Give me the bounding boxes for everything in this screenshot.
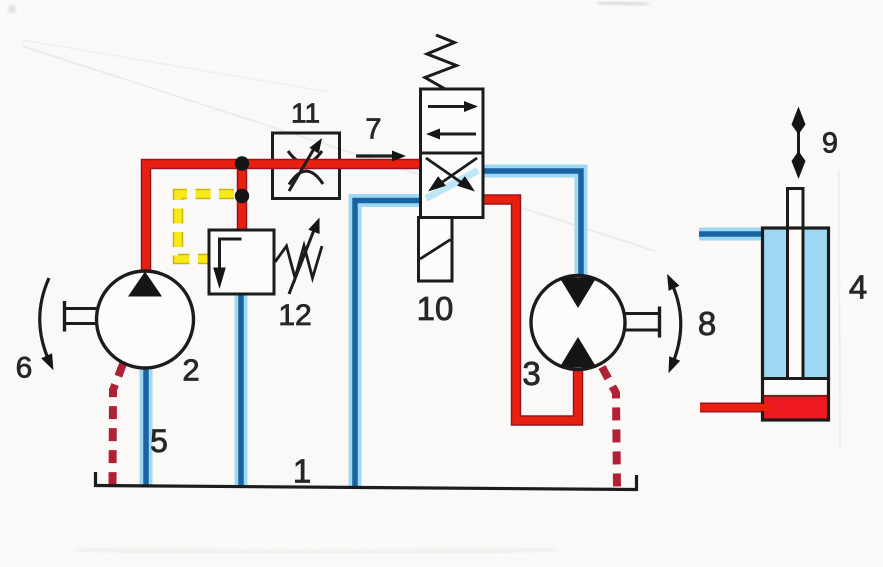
svg-text:11: 11 (291, 98, 320, 129)
svg-text:12: 12 (278, 299, 311, 332)
wire yellow dashed pilot line to relief valve (178, 194, 234, 259)
tank line left end tick (94, 472, 97, 487)
wire red pressure line pump-to-valve11-to-valve10 (146, 164, 421, 274)
directional valve 10 faint blue flow through lower box (426, 171, 478, 199)
directional valve 10 lower position box (421, 153, 484, 218)
wire blue return line valve10-to-tank (355, 201, 424, 489)
node junction dot on red line (to valve 11) (235, 156, 249, 170)
stroke direction arrow 9 lower head (792, 151, 806, 179)
relief valve 12 internal arrowhead (down) (213, 268, 226, 290)
svg-text:2: 2 (182, 353, 199, 388)
directional valve 10 lever actuator box (419, 218, 453, 282)
svg-text:5: 5 (150, 423, 168, 459)
directional valve 10 upper box arrow left (438, 133, 476, 136)
scan artifact right crease (839, 170, 840, 450)
wire blue drain line relief-valve-to-tank (235, 293, 248, 487)
wire blue line to cylinder head side (699, 228, 766, 241)
cylinder 4 red chamber fill (764, 396, 827, 419)
cylinder 4 piston top line (764, 377, 827, 380)
flow control valve 11 adjustment arrow (289, 147, 315, 191)
pump 2 shaft (65, 309, 98, 324)
scan artifact faint short diagonal (22, 40, 330, 92)
scan artifact top-left dot (8, 5, 16, 13)
rotation arrow 8 lower head (669, 356, 681, 373)
tank line right end tick (635, 475, 638, 491)
wire red dashed drain line motor-to-tank (602, 367, 617, 489)
scan artifact faint diagonal line (22, 46, 655, 251)
flow control valve 11 body (box drawn under the red line) (273, 133, 340, 199)
directional valve 10 spring (425, 35, 457, 90)
relief valve 12 adjustment arrow (289, 230, 314, 294)
pump 2 circle (97, 271, 194, 368)
svg-text:10: 10 (417, 290, 454, 327)
flow direction arrow 7 (356, 154, 393, 157)
cylinder 4 white piston band (764, 379, 827, 397)
motor 3 shaft end cap (658, 307, 661, 338)
directional valve 10 cross arrow B (441, 158, 477, 183)
rotation arrow 6 head (41, 353, 53, 370)
rotation arrow 8 arc (671, 282, 681, 365)
wire red dashed drain line pump-to-tank (113, 364, 124, 486)
scan artifact top smudge (598, 2, 648, 5)
cylinder 4 red chamber top line (764, 395, 827, 397)
rotation arrow 8 upper head (667, 274, 679, 291)
motor 3 shaft (625, 314, 660, 331)
wire red branch to relief valve 12 (237, 160, 248, 232)
relief valve 12 spring (275, 246, 322, 279)
flow control valve 11 lower throttle arc (289, 171, 323, 184)
cylinder 4 piston rod (788, 189, 804, 379)
wire blue line valve10-to-motor (480, 171, 581, 280)
pressure relief valve 12 body (209, 230, 274, 294)
svg-text:7: 7 (365, 114, 381, 146)
pump 2 flow triangle (outlet up) (128, 272, 162, 297)
stroke direction arrow 9 shaft (797, 118, 800, 168)
scan artifact bottom shadow streak (75, 549, 555, 553)
directional valve 10 upper position box (421, 89, 484, 153)
motor 3 upper triangle (pointing in) (560, 278, 597, 309)
stroke direction arrow 9 upper head (792, 107, 806, 135)
svg-text:1: 1 (293, 453, 311, 490)
cylinder 4 blue chamber fill (764, 230, 827, 379)
directional valve 10 cross arrow A (426, 158, 462, 183)
svg-text:9: 9 (822, 128, 838, 160)
tank line 1 (95, 486, 637, 490)
rotation arrow 6 arc (40, 278, 50, 363)
svg-text:4: 4 (849, 269, 867, 306)
wire red line to cylinder rod side (700, 403, 766, 413)
relief valve 12 internal path (220, 239, 242, 270)
directional valve 10 upper box arrow right (428, 105, 466, 108)
flow control valve 11 upper throttle arc (288, 151, 322, 163)
motor 3 circle (531, 276, 625, 370)
cylinder 4 barrel outline (763, 228, 829, 420)
node junction dot on red branch (pilot tap) (235, 189, 249, 203)
wire blue suction line pump-to-tank (node 5) (140, 362, 153, 486)
svg-text:3: 3 (522, 355, 540, 392)
wire red line valve10-to-motor (480, 200, 578, 421)
svg-text:8: 8 (698, 305, 716, 342)
pump 2 shaft end cap (63, 301, 66, 332)
motor 3 lower triangle (pointing in) (560, 337, 597, 368)
svg-text:6: 6 (16, 352, 33, 385)
directional valve 10 lever diagonal (420, 240, 451, 260)
wire red line entering cylinder (over barrel wall) (756, 404, 772, 411)
